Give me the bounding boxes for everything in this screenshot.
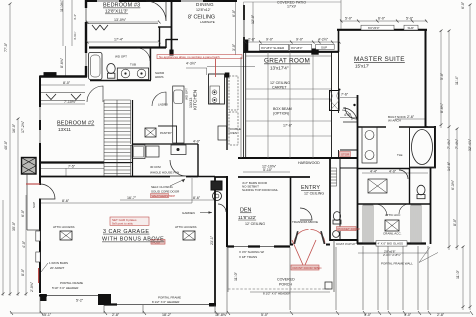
svg-text:12'8"X11'3": 12'8"X11'3" [105, 9, 128, 14]
svg-text:X 4'6" SLIDING W/: X 4'6" SLIDING W/ [239, 250, 264, 254]
svg-text:17'-4": 17'-4" [114, 37, 124, 41]
svg-text:4'-6": 4'-6" [344, 113, 352, 117]
svg-text:17'-8": 17'-8" [283, 124, 293, 128]
svg-text:6'-0": 6'-0" [21, 209, 25, 217]
svg-text:8'-6": 8'-6" [62, 199, 70, 203]
svg-text:MASTER SUITE: MASTER SUITE [354, 56, 405, 63]
svg-text:11'8"x22': 11'8"x22' [238, 215, 256, 220]
svg-text:5'-0": 5'-0" [261, 313, 269, 317]
svg-text:6'-0": 6'-0" [378, 17, 386, 21]
svg-text:8'-0": 8'-0" [453, 218, 457, 226]
svg-text:5'-2": 5'-2" [76, 299, 84, 303]
svg-text:1 IRON BARS: 1 IRON BARS [49, 261, 68, 265]
svg-text:SUP: SUP [408, 26, 414, 30]
svg-text:4'-6¾": 4'-6¾" [73, 32, 77, 40]
svg-text:GARDEN: GARDEN [182, 211, 195, 215]
svg-text:DINING: DINING [196, 2, 214, 7]
svg-text:4'-3½": 4'-3½" [186, 62, 197, 66]
svg-text:7'-10½": 7'-10½" [64, 100, 77, 104]
svg-text:TRANSOM ABOVE: TRANSOM ABOVE [292, 220, 318, 224]
svg-text:WD OPT: WD OPT [185, 88, 189, 100]
svg-text:8'-6¾": 8'-6¾" [440, 102, 444, 113]
svg-text:6'-0": 6'-0" [461, 1, 465, 9]
svg-text:2'-0⅝": 2'-0⅝" [30, 281, 34, 292]
svg-text:18'-2": 18'-2" [162, 313, 172, 317]
svg-text:5'-10": 5'-10" [263, 168, 273, 172]
svg-text:12'-0": 12'-0" [251, 14, 255, 24]
svg-text:11'-4": 11'-4" [455, 75, 459, 85]
svg-text:5'-0": 5'-0" [440, 72, 444, 80]
svg-text:No appliances allow, no workto: No appliances allow, no worktop a panel … [159, 55, 220, 59]
svg-text:12' CEILING: 12' CEILING [245, 222, 265, 226]
svg-text:2'-8": 2'-8" [112, 313, 120, 317]
svg-text:30 CFM: 30 CFM [150, 165, 161, 169]
svg-text:2'-8": 2'-8" [437, 313, 445, 317]
svg-text:4'-0": 4'-0" [389, 169, 397, 173]
svg-text:WITH BONUS ABOVE: WITH BONUS ABOVE [102, 237, 164, 243]
svg-text:14'-6": 14'-6" [447, 161, 451, 171]
svg-text:32'-4⅞": 32'-4⅞" [468, 138, 472, 151]
svg-text:4'-4": 4'-4" [370, 169, 378, 173]
svg-text:12'8"x12': 12'8"x12' [196, 8, 211, 12]
svg-text:ENTRY: ENTRY [301, 185, 320, 191]
svg-text:35'-0": 35'-0" [12, 221, 16, 231]
svg-text:BEDROOM #2: BEDROOM #2 [57, 121, 94, 127]
svg-text:8 1/2" X 0" HEADER: 8 1/2" X 0" HEADER [152, 300, 180, 304]
svg-text:PANTRY: PANTRY [160, 131, 172, 135]
svg-text:(OPTION): (OPTION) [273, 112, 289, 116]
svg-text:PORTAL FRAME WALL: PORTAL FRAME WALL [381, 262, 413, 266]
svg-text:X 18" TRANS: X 18" TRANS [239, 255, 257, 259]
svg-text:11'-0¾": 11'-0¾" [60, 0, 64, 12]
svg-text:WEATHERSTRIP: WEATHERSTRIP [152, 194, 176, 198]
svg-text:8'-0": 8'-0" [63, 81, 71, 85]
svg-text:5'10" X 0" HEADER: 5'10" X 0" HEADER [52, 286, 79, 290]
svg-text:5'-0": 5'-0" [406, 17, 414, 21]
svg-text:9'0"x8'0" SLIDER: 9'0"x8'0" SLIDER [261, 46, 285, 50]
svg-text:7'-4¾": 7'-4¾" [447, 138, 451, 149]
svg-text:77'-0": 77'-0" [4, 42, 8, 52]
svg-text:5'-0": 5'-0" [345, 17, 353, 21]
svg-text:COAT 4'10"x0": COAT 4'10"x0" [336, 242, 356, 246]
svg-text:HDRS: HDRS [155, 75, 164, 79]
svg-text:7'-6": 7'-6" [341, 93, 349, 97]
svg-text:13X11: 13X11 [58, 127, 71, 132]
svg-text:KITCHEN: KITCHEN [193, 90, 198, 110]
svg-text:9'0"x8'0": 9'0"x8'0" [291, 46, 302, 50]
svg-text:13'-0½": 13'-0½" [114, 18, 127, 22]
svg-text:W/ ARCH: W/ ARCH [388, 118, 401, 122]
svg-text:CRAWL ACC.: CRAWL ACC. [383, 232, 402, 236]
svg-text:LNDRY: LNDRY [158, 103, 168, 107]
svg-text:ATTIC ACCESS: ATTIC ACCESS [53, 225, 74, 229]
svg-text:7'-4¾": 7'-4¾" [455, 138, 459, 149]
svg-text:23'-1": 23'-1" [210, 235, 214, 245]
svg-text:TLE: TLE [397, 153, 403, 157]
svg-text:4'-0": 4'-0" [22, 240, 26, 248]
svg-text:8'-0": 8'-0" [21, 268, 25, 276]
svg-text:2'-0½" 2'-8½": 2'-0½" 2'-8½" [383, 253, 401, 257]
svg-text:SELF CLOSING: SELF CLOSING [151, 185, 174, 189]
svg-text:LAMINATE: LAMINATE [200, 20, 215, 24]
svg-text:3 CAR GARAGE: 3 CAR GARAGE [103, 229, 149, 235]
svg-text:9'-0": 9'-0" [266, 38, 274, 42]
svg-text:4'-2½": 4'-2½" [318, 38, 329, 42]
svg-text:CARPET: CARPET [272, 86, 287, 90]
svg-text:OVEN: OVEN [229, 131, 238, 135]
svg-text:SLIDING TOP DOOR RAIL: SLIDING TOP DOOR RAIL [242, 188, 279, 192]
svg-text:SUP: SUP [32, 202, 36, 208]
svg-text:17'-2⅝": 17'-2⅝" [21, 120, 25, 133]
svg-text:9x9 post to attic: 9x9 post to attic [112, 222, 134, 226]
svg-text:POCKET DOOR: POCKET DOOR [338, 227, 361, 231]
svg-text:COVERED: COVERED [277, 278, 295, 282]
svg-text:4' X 0" BIG GLASS: 4' X 0" BIG GLASS [378, 242, 403, 246]
svg-text:PORCH: PORCH [279, 283, 292, 287]
svg-text:FRONT DOOR SPEC: FRONT DOOR SPEC [293, 266, 323, 270]
svg-text:6'-3½": 6'-3½" [451, 179, 455, 190]
svg-text:DEN: DEN [240, 208, 251, 214]
svg-text:8'-6": 8'-6" [193, 196, 201, 200]
svg-text:WHOLE HOUSE FAN: WHOLE HOUSE FAN [150, 171, 179, 175]
svg-text:13'x17'4": 13'x17'4" [270, 66, 289, 71]
svg-text:20' APART: 20' APART [50, 266, 64, 270]
svg-text:15'x17': 15'x17' [355, 64, 369, 69]
svg-text:SOLID CORE DOOR: SOLID CORE DOOR [151, 190, 180, 194]
svg-text:11'-0": 11'-0" [456, 269, 460, 279]
svg-text:BOX BEAM: BOX BEAM [273, 107, 292, 111]
svg-text:16'-7": 16'-7" [127, 196, 137, 200]
svg-text:ATTIC ACC: ATTIC ACC [385, 213, 401, 217]
svg-text:ATTIC ACCESS: ATTIC ACCESS [175, 225, 196, 229]
svg-text:16'-0": 16'-0" [12, 123, 16, 133]
svg-text:40'-0": 40'-0" [4, 140, 8, 150]
svg-text:12' CEILING: 12' CEILING [270, 81, 290, 85]
svg-text:7'-5": 7'-5" [68, 165, 76, 169]
svg-text:12' CEILING: 12' CEILING [304, 192, 324, 196]
svg-text:12'-10⅝": 12'-10⅝" [262, 164, 277, 168]
svg-text:2'-8": 2'-8" [248, 38, 256, 42]
svg-text:SUP: SUP [321, 46, 327, 50]
svg-text:TUB: TUB [130, 63, 136, 67]
svg-text:13X13: 13X13 [189, 98, 193, 108]
svg-text:3'-0": 3'-0" [232, 43, 236, 51]
svg-text:HARDWOOD: HARDWOOD [298, 161, 320, 165]
svg-text:STOR: STOR [341, 153, 350, 157]
svg-text:6'-0": 6'-0" [232, 9, 236, 17]
svg-text:PORTAL FRAME: PORTAL FRAME [60, 281, 83, 285]
svg-text:11'-0": 11'-0" [234, 271, 238, 281]
svg-text:9'-0": 9'-0" [296, 38, 304, 42]
svg-text:4'-0": 4'-0" [193, 140, 201, 144]
svg-text:15'-1": 15'-1" [42, 313, 52, 317]
svg-text:WD OPT: WD OPT [115, 55, 127, 59]
svg-text:17'x9': 17'x9' [287, 5, 296, 9]
svg-text:6'0"x5'0": 6'0"x5'0" [368, 26, 379, 30]
svg-text:8'-6⅝": 8'-6⅝" [60, 57, 64, 68]
svg-text:GREAT ROOM: GREAT ROOM [264, 58, 310, 65]
svg-text:4'-4": 4'-4" [73, 14, 77, 20]
svg-text:2'-6": 2'-6" [407, 115, 415, 119]
